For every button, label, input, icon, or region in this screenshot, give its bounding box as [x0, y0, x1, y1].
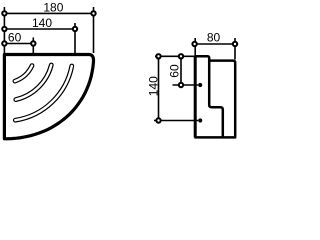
svg-text:140: 140 — [32, 16, 52, 30]
screw top — [198, 83, 202, 87]
svg-text:80: 80 — [207, 30, 221, 44]
dimension line 140 — [4, 28, 75, 30]
wire extension line 140 right — [74, 23, 76, 53]
slot 1 inner — [15, 66, 32, 82]
dimension line 60 — [4, 43, 33, 45]
bracket rim outline — [194, 61, 235, 138]
dimension line 60 vertical — [180, 56, 182, 85]
svg-text:180: 180 — [43, 1, 63, 15]
slot 2 middle — [16, 65, 52, 100]
wire extension mid — [173, 84, 199, 86]
wire extension 80 left / plate top — [194, 38, 196, 56]
screw bottom — [198, 118, 202, 122]
bracket top edge and inner wall — [195, 56, 223, 136]
wire extension line 180 right — [93, 7, 95, 53]
wire extension line left — [3, 7, 5, 53]
wire extension 80 right — [234, 38, 236, 60]
dimension line 80 — [195, 43, 235, 45]
shelf body front view — [4, 55, 93, 139]
dimension line 180 — [4, 12, 93, 14]
svg-text:60: 60 — [168, 64, 182, 78]
wire extension line 60 right — [32, 38, 34, 54]
svg-text:140: 140 — [146, 76, 160, 96]
slot 3 outer — [15, 66, 72, 120]
node dots front — [2, 11, 6, 15]
bracket wall plate — [194, 56, 197, 137]
svg-text:60: 60 — [8, 31, 22, 45]
wire extension bottom — [154, 120, 198, 122]
wire extension top reference — [155, 55, 195, 57]
node dots side — [192, 42, 196, 46]
dimension line 140 vertical — [158, 56, 160, 120]
